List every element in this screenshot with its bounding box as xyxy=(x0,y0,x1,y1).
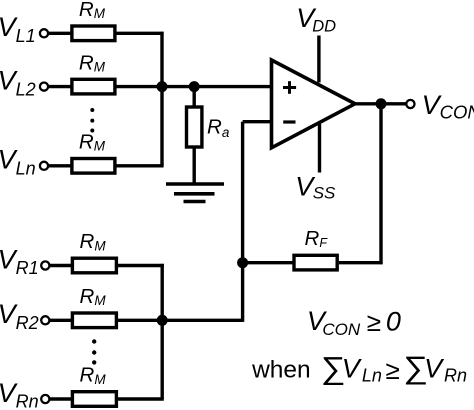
svg-text:Rn: Rn xyxy=(444,365,467,385)
svg-text:≥: ≥ xyxy=(367,307,381,337)
svg-text:Ln: Ln xyxy=(362,366,382,386)
svg-text:0: 0 xyxy=(386,307,401,337)
svg-text:V: V xyxy=(424,353,445,383)
svg-text:when: when xyxy=(251,357,311,384)
svg-text:CON: CON xyxy=(322,320,361,339)
svg-text:V: V xyxy=(342,353,363,383)
svg-text:≥: ≥ xyxy=(386,355,400,385)
